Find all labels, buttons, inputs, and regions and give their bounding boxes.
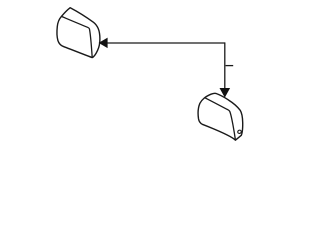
headrest 2 inner edge line [205,98,235,140]
headrest 1 outline (top-left) [57,8,100,58]
arrow to headrest 2 (downward filled arrowhead) [220,88,230,97]
arrow to headrest 1 (leftward filled arrowhead) [99,38,107,47]
wire: horizontal leader line [107,42,225,44]
headrest 2 small post hole detail [237,130,241,134]
headrest 2 outline (bottom-right) [198,93,243,140]
tick mark on vertical line [226,65,234,67]
wire: vertical leader line [224,42,226,89]
headrest 1 inner edge line [61,16,92,57]
